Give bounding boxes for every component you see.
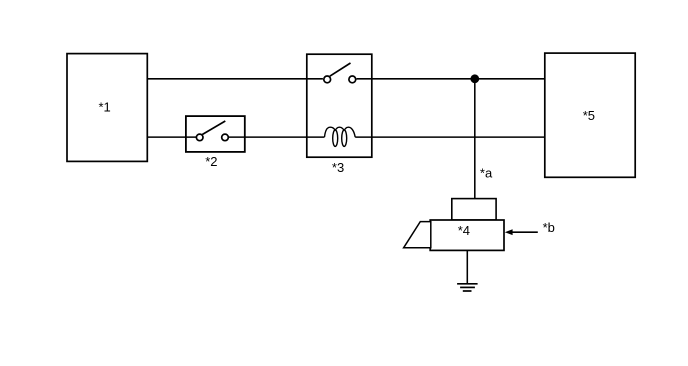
component *4 nozzle — [404, 222, 431, 248]
relay coil arch 3 — [344, 127, 355, 137]
relay switch left contact — [324, 76, 331, 83]
ground bar 1 — [457, 283, 478, 285]
svg-text:*a: *a — [480, 165, 493, 180]
component *4 top connector box — [452, 199, 496, 220]
wire bottom: coil to box5 — [355, 136, 545, 138]
relay coil arch 1 — [325, 127, 336, 137]
svg-text:*1: *1 — [99, 100, 111, 115]
relay box *3 — [307, 54, 372, 157]
relay coil arch 2 — [335, 127, 344, 130]
switch *2 right contact — [222, 134, 229, 141]
relay switch right contact — [349, 76, 356, 83]
ground bar 3 — [463, 290, 472, 292]
svg-text:*3: *3 — [332, 160, 344, 175]
component *4 main body — [430, 220, 504, 250]
ground bar 2 — [460, 286, 475, 288]
svg-text:*2: *2 — [205, 154, 217, 169]
wire vertical: junction to component4 — [474, 79, 476, 199]
arrow *b shaft — [512, 231, 538, 233]
switch *2 lever — [202, 121, 225, 135]
ground stem — [466, 250, 468, 283]
wire bottom: box1 to switch2 — [147, 136, 196, 138]
wire bottom: switch2 to coil — [229, 136, 325, 138]
box *5 — [545, 53, 635, 177]
relay switch lever — [330, 63, 351, 76]
switch *2 left contact — [196, 134, 203, 141]
relay coil loop 2 — [342, 130, 347, 146]
wire top: box1 to relay box3 switch — [147, 78, 323, 80]
box *1 — [67, 54, 147, 162]
svg-text:*5: *5 — [583, 108, 595, 123]
box *2 switch — [186, 116, 245, 152]
arrow *b head — [505, 229, 513, 235]
relay coil loop 1 — [333, 130, 338, 146]
junction node — [470, 74, 479, 83]
svg-text:*b: *b — [543, 220, 555, 235]
svg-text:*4: *4 — [458, 223, 470, 238]
wire top: relay switch to box5 — [357, 78, 545, 80]
